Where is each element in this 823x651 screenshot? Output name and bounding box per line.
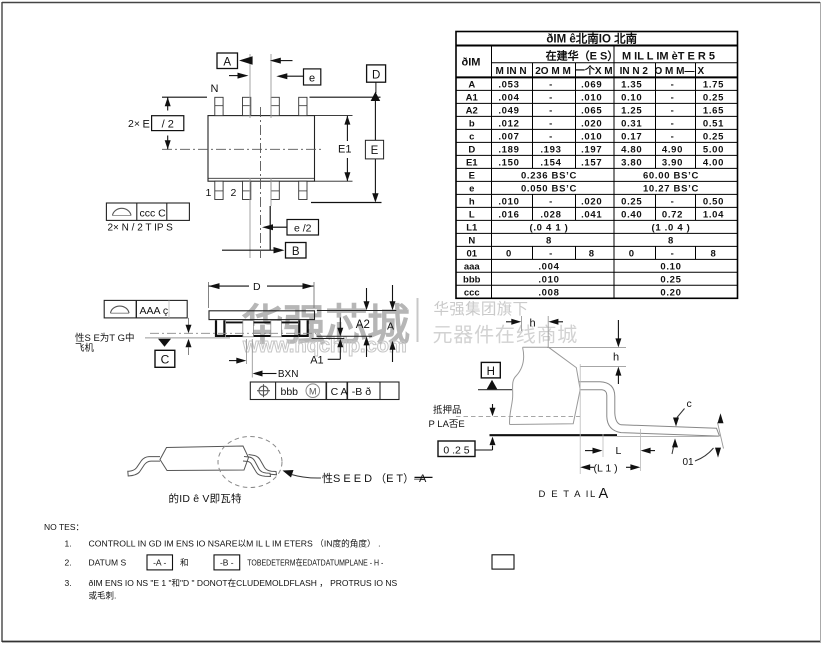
svg-text:-: - xyxy=(549,92,553,103)
h horizontal extension lines xyxy=(521,316,523,331)
side view D dimension xyxy=(209,285,250,287)
svg-text:P LA否E: P LA否E xyxy=(429,419,465,430)
svg-text:.008: .008 xyxy=(538,287,559,298)
svg-text:1: 1 xyxy=(206,187,212,199)
svg-text:C A: C A xyxy=(331,386,348,398)
D leader line xyxy=(375,82,377,93)
right extension line A2 bottom xyxy=(317,335,373,337)
side view lead 1 xyxy=(216,320,224,336)
0.25 leader xyxy=(475,449,493,451)
detail lead outer contour xyxy=(579,382,720,436)
svg-text:NO TES：: NO TES： xyxy=(44,522,84,532)
svg-text:H: H xyxy=(487,366,495,378)
0.25 box xyxy=(438,441,475,457)
A2 dimension xyxy=(366,288,368,302)
detail body left wavy edge xyxy=(510,347,524,424)
page border bottom xyxy=(2,641,821,643)
svg-text:-: - xyxy=(549,118,553,129)
svg-text:bbb: bbb xyxy=(463,274,481,285)
gauge plane arrow down xyxy=(492,404,494,408)
svg-text:-: - xyxy=(671,105,675,116)
svg-text:TOBEDETERM在EDATDATUMPLANE - H: TOBEDETERM在EDATDATUMPLANE - H - xyxy=(247,558,383,568)
svg-text:4.80: 4.80 xyxy=(621,144,642,155)
svg-text:0.10: 0.10 xyxy=(621,92,642,103)
table row N xyxy=(456,232,738,234)
svg-text:M: M xyxy=(309,386,317,396)
table row L xyxy=(456,206,738,208)
top view horizontal centerline xyxy=(162,148,324,150)
svg-text:0.72: 0.72 xyxy=(662,209,683,220)
svg-text:3.: 3. xyxy=(65,578,72,588)
svg-text:-B ð: -B ð xyxy=(352,386,371,398)
svg-text:CONTROLL IN GD IM ENS IO NSARE: CONTROLL IN GD IM ENS IO NSARE以M IL L IM… xyxy=(89,538,381,548)
E1 bottom extension xyxy=(315,180,353,182)
svg-text:飞机: 飞机 xyxy=(75,342,95,354)
svg-text:.007: .007 xyxy=(498,131,519,142)
svg-text:8: 8 xyxy=(711,248,717,259)
svg-text:ðIM ENS IO NS "E 1 "和"D " DONO: ðIM ENS IO NS "E 1 "和"D " DONOT在CLUDEMOL… xyxy=(89,578,398,588)
svg-text:ccc C: ccc C xyxy=(140,207,167,219)
svg-text:-: - xyxy=(549,196,553,207)
L dimension xyxy=(585,450,595,452)
svg-text:-: - xyxy=(671,92,675,103)
svg-text:A: A xyxy=(599,486,609,502)
svg-text:1.35: 1.35 xyxy=(621,79,642,90)
datum A arrow xyxy=(239,56,253,65)
svg-text:.004: .004 xyxy=(498,92,519,103)
svg-text:.028: .028 xyxy=(540,209,561,220)
svg-text:.154: .154 xyxy=(540,157,561,168)
svg-text:A2: A2 xyxy=(466,105,478,116)
svg-text:10.27 BS’C: 10.27 BS’C xyxy=(643,183,699,194)
svg-text:.016: .016 xyxy=(498,209,519,220)
svg-text:L: L xyxy=(616,445,622,457)
svg-text:h: h xyxy=(530,318,536,330)
table row D xyxy=(456,141,738,143)
side view lead 4 xyxy=(299,320,307,336)
side view body xyxy=(209,311,315,320)
svg-text:-: - xyxy=(671,79,675,90)
svg-text:.189: .189 xyxy=(498,144,519,155)
pin-top extension line left xyxy=(162,96,207,98)
watermark divider xyxy=(417,298,419,342)
svg-text:ðIM: ðIM xyxy=(462,57,481,69)
datum C box xyxy=(155,350,175,367)
A1 dimension xyxy=(339,318,341,329)
svg-text:h: h xyxy=(469,196,475,207)
svg-text:A1: A1 xyxy=(310,354,323,366)
svg-text:在建华（E S）: 在建华（E S） xyxy=(546,49,619,63)
H datum triangle xyxy=(487,380,498,390)
E1 top extension xyxy=(315,115,353,117)
BXN extension lines xyxy=(246,339,248,364)
vertical leader above B xyxy=(269,206,271,250)
svg-text:.053: .053 xyxy=(498,79,519,90)
svg-text:bbb: bbb xyxy=(281,386,299,398)
svg-text:M IL L IM èT E R 5: M IL L IM èT E R 5 xyxy=(622,51,715,63)
profile view body xyxy=(160,446,249,471)
table row E1 xyxy=(456,154,738,156)
svg-text:性S E E D （E T）—: 性S E E D （E T）— xyxy=(322,471,425,485)
label box B xyxy=(286,243,307,259)
svg-text:0.31: 0.31 xyxy=(621,118,642,129)
svg-text:.069: .069 xyxy=(581,79,602,90)
theta1 angle dimension xyxy=(718,423,724,449)
svg-text:2× N / 2 T IP S: 2× N / 2 T IP S xyxy=(108,223,174,234)
svg-text:L1: L1 xyxy=(466,222,478,233)
svg-text:2.: 2. xyxy=(65,558,72,568)
dimension table outer border xyxy=(456,32,738,299)
svg-text:或毛刺.: 或毛刺. xyxy=(89,591,117,601)
svg-text:2: 2 xyxy=(231,187,237,199)
svg-text:A1: A1 xyxy=(466,92,479,103)
svg-text:E: E xyxy=(469,170,475,181)
e/2 label box xyxy=(287,220,319,236)
svg-text:2×: 2× xyxy=(128,118,140,130)
datum C triangle xyxy=(158,339,171,347)
top view pin bottom 1 xyxy=(215,181,223,199)
svg-text:8: 8 xyxy=(668,235,674,246)
table row 01 xyxy=(456,245,738,247)
table row h xyxy=(456,193,738,195)
side view middle lead 2 xyxy=(243,321,254,337)
svg-text:IN N 2: IN N 2 xyxy=(620,66,649,77)
svg-text:-: - xyxy=(549,131,553,142)
see detail leader arrow xyxy=(283,470,294,478)
svg-text:0.050 BS’C: 0.050 BS’C xyxy=(521,183,577,194)
H datum box xyxy=(481,362,500,378)
table title row xyxy=(456,45,738,47)
svg-text:0.17: 0.17 xyxy=(621,131,642,142)
svg-text:-: - xyxy=(549,79,553,90)
svg-text:-A -: -A - xyxy=(153,558,166,568)
svg-text:.065: .065 xyxy=(581,105,602,116)
svg-text:0.20: 0.20 xyxy=(660,287,681,298)
top view pin bottom 2 xyxy=(243,181,251,199)
page border right xyxy=(820,2,822,642)
table row A2 xyxy=(456,102,738,104)
BXN dimension arrows xyxy=(229,360,238,362)
profile view left lead xyxy=(128,457,160,476)
L1 dimension xyxy=(580,464,590,470)
table row A1 xyxy=(456,89,738,91)
table header group row xyxy=(492,62,738,64)
svg-text:-: - xyxy=(671,196,675,207)
label box D xyxy=(367,65,386,82)
page border left xyxy=(1,2,3,642)
2xE/2 top extension arrow xyxy=(167,97,169,110)
svg-text:5.00: 5.00 xyxy=(703,144,724,155)
svg-text:c: c xyxy=(469,131,474,142)
svg-text:.012: .012 xyxy=(498,118,519,129)
gauge plane thick line xyxy=(490,434,618,436)
strike through A xyxy=(415,476,433,478)
svg-text:.041: .041 xyxy=(581,209,602,220)
svg-text:3.80: 3.80 xyxy=(621,157,642,168)
side view middle lead 3 xyxy=(271,321,282,337)
svg-text:0.50: 0.50 xyxy=(703,196,724,207)
M modifier circle xyxy=(306,384,320,398)
svg-text:-: - xyxy=(671,248,675,259)
AAA leader arrows xyxy=(188,318,190,325)
page border top xyxy=(2,2,820,4)
right top extension line xyxy=(317,310,397,312)
table header min/nom/max row xyxy=(456,76,738,78)
svg-text:O M M—: O M M— xyxy=(655,66,695,77)
svg-text:.197: .197 xyxy=(581,144,602,155)
top view body inner bottom line xyxy=(209,177,315,179)
seating plane dash-dot xyxy=(150,332,316,334)
table column lines xyxy=(491,46,493,299)
svg-text:N: N xyxy=(211,83,219,95)
svg-text:e: e xyxy=(469,183,474,194)
gauge arrow up xyxy=(490,437,496,446)
top view pin bottom 4 xyxy=(299,181,307,199)
svg-text:A: A xyxy=(223,56,231,68)
svg-text:(L 1 ): (L 1 ) xyxy=(594,462,618,474)
svg-text:8: 8 xyxy=(589,248,595,259)
svg-text:.049: .049 xyxy=(498,105,519,116)
svg-text:0.51: 0.51 xyxy=(703,118,724,129)
top view pin top 4 xyxy=(299,97,307,115)
table row aaa xyxy=(456,258,738,260)
svg-text:A: A xyxy=(468,79,475,90)
svg-text:.150: .150 xyxy=(498,157,519,168)
svg-text:A: A xyxy=(419,473,427,485)
svg-text:4.00: 4.00 xyxy=(703,157,724,168)
svg-text:L: L xyxy=(469,209,475,220)
detail body outline xyxy=(510,347,581,424)
svg-text:4.90: 4.90 xyxy=(662,144,683,155)
h vertical extension lines xyxy=(547,346,626,348)
surface profile callout ccc C xyxy=(106,203,189,220)
svg-text:一个X M: 一个X M xyxy=(575,64,613,77)
svg-text:-: - xyxy=(549,105,553,116)
svg-text:.010: .010 xyxy=(498,196,519,207)
h vertical dimension xyxy=(617,320,619,339)
svg-text:.010: .010 xyxy=(581,92,602,103)
side view far lead strips xyxy=(226,321,298,323)
svg-text:N: N xyxy=(468,235,475,246)
svg-text:E: E xyxy=(371,145,379,157)
svg-text:01: 01 xyxy=(683,457,695,468)
svg-text:3.90: 3.90 xyxy=(662,157,683,168)
profile view right lead front xyxy=(243,457,271,477)
extension line pin2 right xyxy=(249,54,251,118)
svg-text:b: b xyxy=(469,118,475,129)
table row ccc xyxy=(456,284,738,286)
svg-text:0: 0 xyxy=(506,248,512,259)
svg-text:D E T A IL: D E T A IL xyxy=(539,489,597,500)
svg-text:0.25: 0.25 xyxy=(621,196,642,207)
table row b xyxy=(456,115,738,117)
svg-text:/ 2: / 2 xyxy=(162,118,174,130)
svg-text:ðIM ê北南IO 北南: ðIM ê北南IO 北南 xyxy=(546,32,637,46)
svg-text:.010: .010 xyxy=(538,274,559,285)
svg-text:8: 8 xyxy=(546,235,552,246)
svg-text:D: D xyxy=(468,144,475,155)
E label box xyxy=(365,140,383,159)
svg-text:0.236 BS’C: 0.236 BS’C xyxy=(521,170,577,181)
top view pin top 3 xyxy=(271,97,279,115)
2xE/2 bottom arrow xyxy=(167,136,169,150)
e arrow xyxy=(287,75,304,77)
svg-text:.020: .020 xyxy=(581,196,602,207)
svg-text:(.0 4 1 ): (.0 4 1 ) xyxy=(529,222,568,233)
position symbol xyxy=(259,386,268,395)
svg-text:1.04: 1.04 xyxy=(703,209,724,220)
detail reference dashed circle xyxy=(218,437,282,488)
svg-text:D: D xyxy=(372,69,380,81)
label box e xyxy=(304,69,321,85)
e/2 leader arrow xyxy=(273,226,287,228)
svg-text:-: - xyxy=(671,118,675,129)
seating plane solid line xyxy=(145,337,230,339)
svg-text:1.25: 1.25 xyxy=(621,105,642,116)
arrow toward pin2 line xyxy=(229,75,239,77)
svg-text:A: A xyxy=(387,321,394,333)
profile view right lead rear xyxy=(249,455,277,475)
E1 dimension line xyxy=(346,116,348,141)
E dimension line xyxy=(374,100,376,140)
B leader arrow xyxy=(222,249,274,251)
L extension lines xyxy=(579,364,581,474)
svg-text:.020: .020 xyxy=(581,118,602,129)
table row E xyxy=(456,167,738,169)
top view body xyxy=(208,116,315,182)
svg-text:.193: .193 xyxy=(540,144,561,155)
svg-text:AAA ç: AAA ç xyxy=(140,305,169,317)
svg-text:h: h xyxy=(613,352,619,364)
top view pin bottom 3 xyxy=(271,181,279,199)
svg-text:1.: 1. xyxy=(65,538,72,548)
E bottom extension line xyxy=(311,202,382,204)
svg-text:.004: .004 xyxy=(538,261,559,272)
table row e xyxy=(456,180,738,182)
svg-text:2O M M: 2O M M xyxy=(535,66,571,77)
note 2 reference box xyxy=(492,555,514,569)
svg-text:.157: .157 xyxy=(581,157,602,168)
svg-text:M IN N: M IN N xyxy=(495,66,526,77)
svg-text:E1: E1 xyxy=(338,144,351,156)
H datum line xyxy=(478,389,512,391)
svg-text:元器件在线商城: 元器件在线商城 xyxy=(433,324,579,347)
svg-text:01: 01 xyxy=(466,248,477,259)
svg-text:E: E xyxy=(143,119,150,131)
GDT feature control frame xyxy=(250,382,399,400)
svg-text:-: - xyxy=(549,248,553,259)
svg-text:0.10: 0.10 xyxy=(660,261,681,272)
svg-text:A2: A2 xyxy=(356,319,370,331)
E top extension line xyxy=(310,96,381,98)
svg-text:C: C xyxy=(161,353,170,367)
svg-text:0.25: 0.25 xyxy=(660,274,681,285)
extension line pin3 left xyxy=(270,54,272,118)
svg-text:1.65: 1.65 xyxy=(703,105,724,116)
svg-text:e: e xyxy=(309,73,315,85)
seating plane dashed line xyxy=(456,415,580,417)
svg-text:c: c xyxy=(687,398,692,410)
svg-text:华强集团旗下: 华强集团旗下 xyxy=(434,300,529,318)
svg-text:D: D xyxy=(253,281,261,293)
svg-text:抵押品: 抵押品 xyxy=(433,404,462,416)
top view pin top 2 xyxy=(243,97,251,115)
datum box A xyxy=(217,53,238,69)
svg-text:DATUM S: DATUM S xyxy=(89,558,127,568)
svg-text:B: B xyxy=(292,246,300,258)
top view pin top 1 xyxy=(215,97,223,115)
svg-text:X: X xyxy=(698,66,705,77)
svg-text:0: 0 xyxy=(629,248,635,259)
h horizontal dimension xyxy=(506,321,513,323)
flatness callout AAA xyxy=(104,300,187,318)
svg-text:e /2: e /2 xyxy=(294,223,312,235)
svg-text:0.25: 0.25 xyxy=(703,92,724,103)
svg-text:60.00 BS’C: 60.00 BS’C xyxy=(643,170,699,181)
side view D extension lines xyxy=(208,282,210,308)
svg-text:.010: .010 xyxy=(581,131,602,142)
detail lead inner contour xyxy=(580,390,720,436)
arrow toward pin3 line upper xyxy=(280,60,293,62)
svg-text:1.75: 1.75 xyxy=(703,79,724,90)
svg-text:0.40: 0.40 xyxy=(621,209,642,220)
svg-text:和: 和 xyxy=(180,558,189,568)
svg-text:E1: E1 xyxy=(466,157,478,168)
svg-text:-: - xyxy=(671,131,675,142)
right extension line seating xyxy=(312,338,345,340)
table row c xyxy=(456,128,738,130)
table row bbb xyxy=(456,271,738,273)
table row L1 xyxy=(456,219,738,221)
svg-text:ccc: ccc xyxy=(464,287,480,298)
svg-text:的ID ê V即瓦特: 的ID ê V即瓦特 xyxy=(169,492,242,505)
A dimension xyxy=(392,285,394,302)
top view vertical centerline xyxy=(260,107,262,258)
svg-text:0 .2 5: 0 .2 5 xyxy=(443,444,469,456)
svg-text:aaa: aaa xyxy=(464,261,481,272)
svg-text:(1 .0 4 ): (1 .0 4 ) xyxy=(651,222,690,233)
svg-text:0.25: 0.25 xyxy=(703,131,724,142)
svg-text:BXN: BXN xyxy=(278,369,299,380)
svg-text:-B -: -B - xyxy=(220,558,234,568)
